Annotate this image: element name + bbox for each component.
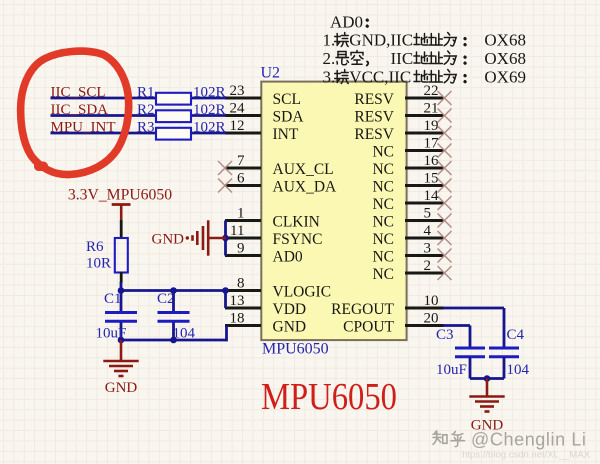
svg-text:23: 23 — [230, 83, 245, 99]
svg-text:GND,IIC: GND,IIC — [349, 31, 413, 50]
svg-text:2: 2 — [424, 258, 432, 274]
svg-text:NC: NC — [372, 196, 394, 213]
svg-text:MPU6050: MPU6050 — [262, 341, 329, 358]
svg-text:VLOGIC: VLOGIC — [273, 284, 332, 301]
svg-text:RESV: RESV — [354, 109, 394, 126]
svg-text:18: 18 — [230, 311, 245, 327]
svg-text:1.: 1. — [323, 31, 336, 50]
svg-text:11: 11 — [230, 223, 244, 239]
svg-text:R6: R6 — [86, 239, 104, 255]
svg-text:22: 22 — [424, 83, 439, 99]
svg-text:NC: NC — [372, 249, 394, 266]
svg-text:CPOUT: CPOUT — [343, 319, 394, 336]
svg-text:R3: R3 — [137, 119, 155, 135]
svg-text:IIC_SCL: IIC_SCL — [51, 84, 106, 100]
svg-text:10uF: 10uF — [436, 362, 467, 378]
svg-text:MPU_INT: MPU_INT — [51, 119, 116, 135]
svg-text:VCC,IIC: VCC,IIC — [349, 68, 411, 87]
svg-text:REGOUT: REGOUT — [331, 301, 394, 318]
svg-text:AUX_DA: AUX_DA — [273, 179, 338, 196]
svg-text:IIC_SDA: IIC_SDA — [51, 102, 109, 118]
svg-text:13: 13 — [230, 293, 245, 309]
svg-text:10R: 10R — [86, 256, 111, 272]
svg-text:NC: NC — [372, 231, 394, 248]
svg-text:17: 17 — [424, 136, 440, 152]
svg-text:C4: C4 — [507, 327, 525, 343]
svg-text:104: 104 — [173, 326, 196, 342]
svg-text:R1: R1 — [137, 84, 155, 100]
svg-text:C1: C1 — [104, 291, 122, 307]
svg-text:C3: C3 — [436, 327, 454, 343]
svg-text:14: 14 — [424, 188, 440, 204]
svg-text:3: 3 — [424, 241, 432, 257]
svg-text:AUX_CL: AUX_CL — [273, 161, 334, 178]
svg-text:15: 15 — [424, 171, 439, 187]
svg-text:16: 16 — [424, 153, 440, 169]
svg-text:IIC: IIC — [391, 49, 414, 68]
svg-text:FSYNC: FSYNC — [273, 231, 323, 248]
svg-text:AD0: AD0 — [330, 13, 363, 32]
svg-text:GND: GND — [105, 380, 138, 396]
svg-text:VDD: VDD — [273, 301, 307, 318]
svg-text:104: 104 — [507, 362, 530, 378]
svg-text:3.3V_MPU6050: 3.3V_MPU6050 — [68, 186, 172, 203]
svg-text:OX68: OX68 — [484, 49, 526, 68]
svg-text:NC: NC — [372, 179, 394, 196]
svg-text:10: 10 — [424, 293, 439, 309]
svg-text:RESV: RESV — [354, 126, 394, 143]
svg-text:@Chenglin Li: @Chenglin Li — [471, 430, 587, 450]
svg-text:AD0: AD0 — [273, 249, 303, 266]
svg-text:12: 12 — [230, 118, 245, 134]
svg-text:10uF: 10uF — [96, 326, 127, 342]
svg-text:7: 7 — [237, 153, 245, 169]
svg-text:19: 19 — [424, 118, 439, 134]
svg-text:MPU6050: MPU6050 — [261, 376, 397, 418]
svg-text:CLKIN: CLKIN — [273, 214, 320, 231]
svg-text:GND: GND — [273, 319, 307, 336]
svg-text:RESV: RESV — [354, 91, 394, 108]
svg-text:C2: C2 — [157, 291, 175, 307]
svg-text:6: 6 — [237, 171, 245, 187]
svg-text:21: 21 — [424, 101, 439, 117]
svg-text:2.: 2. — [323, 49, 336, 68]
svg-text:GND: GND — [152, 232, 185, 248]
svg-text:htps://blog.csdn.net/XL__MAX: htps://blog.csdn.net/XL__MAX — [462, 450, 590, 461]
svg-text:NC: NC — [372, 266, 394, 283]
svg-text:OX69: OX69 — [484, 68, 526, 87]
svg-text:SDA: SDA — [273, 109, 305, 126]
svg-text:NC: NC — [372, 214, 394, 231]
svg-text:R2: R2 — [137, 102, 155, 118]
svg-text:24: 24 — [230, 101, 246, 117]
svg-text:9: 9 — [237, 241, 245, 257]
svg-text:OX68: OX68 — [484, 31, 526, 50]
svg-text:NC: NC — [372, 144, 394, 161]
svg-text:3.: 3. — [323, 68, 336, 87]
svg-text:20: 20 — [424, 311, 439, 327]
svg-text:102R: 102R — [193, 102, 226, 118]
svg-text:102R: 102R — [193, 119, 226, 135]
svg-text:NC: NC — [372, 161, 394, 178]
svg-text:U2: U2 — [261, 65, 281, 82]
svg-text:102R: 102R — [193, 84, 226, 100]
svg-text:1: 1 — [237, 206, 245, 222]
svg-text:8: 8 — [237, 276, 245, 292]
svg-text:5: 5 — [424, 206, 432, 222]
svg-text:4: 4 — [424, 223, 432, 239]
svg-text:INT: INT — [273, 126, 299, 143]
svg-text:SCL: SCL — [273, 91, 301, 108]
